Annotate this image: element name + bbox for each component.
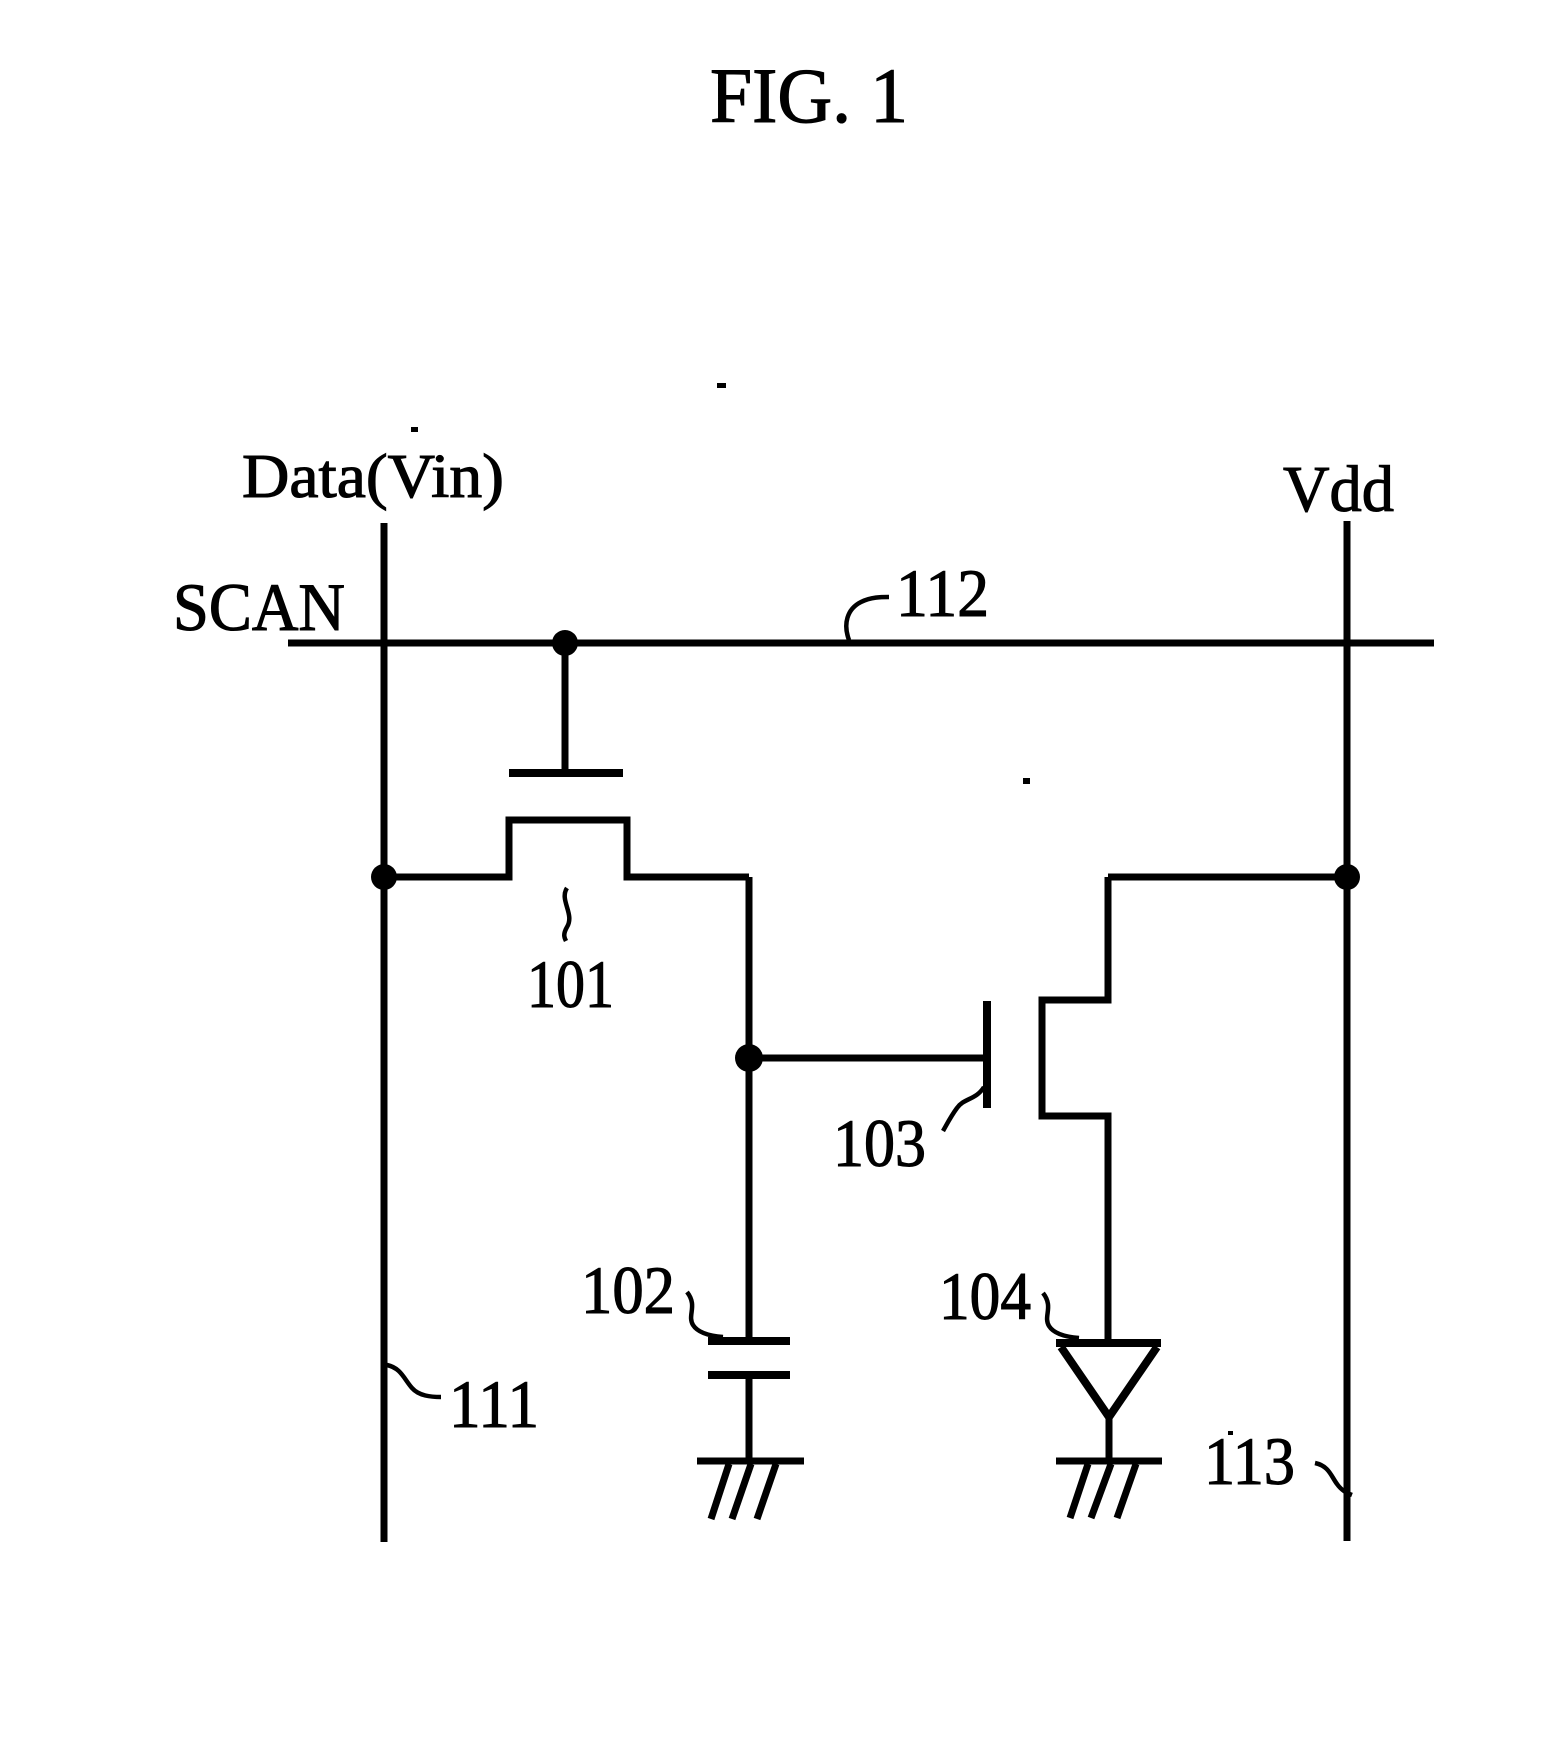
ground symbol below diode 104	[1056, 1461, 1162, 1518]
speck left of transistor 103	[1023, 778, 1030, 784]
OLED diode 104 (triangle)	[1056, 1343, 1161, 1417]
wire from 101 drain down to storage node	[746, 877, 753, 1058]
node storage node junction dot	[735, 1044, 763, 1072]
wire gate lead of transistor 101	[562, 643, 569, 770]
wire SCAN line 112 (horizontal)	[288, 640, 1434, 647]
node junction dot on data line at transistor 101 source	[371, 864, 397, 890]
ground symbol below capacitor 102	[697, 1461, 804, 1519]
capacitor 102 bottom plate	[708, 1371, 790, 1379]
wire storage node down to capacitor 102	[746, 1058, 753, 1338]
transistor 101 gate bar	[509, 769, 623, 777]
transistor 103 channel (vertical with hat facing left)	[1042, 877, 1108, 1343]
transistor 101 channel (source-drain with raised hat)	[384, 820, 749, 877]
svg-text:103: 103	[833, 1105, 926, 1181]
svg-text:112: 112	[896, 555, 989, 631]
svg-text:Vdd: Vdd	[1283, 453, 1394, 526]
svg-text:111: 111	[449, 1366, 539, 1442]
wire data line 111 (vertical)	[381, 523, 388, 1542]
capacitor 102 top plate	[708, 1337, 790, 1345]
node junction dot on Vdd line	[1334, 864, 1360, 890]
wire gate lead of transistor 103	[749, 1055, 984, 1062]
wire Vdd line 113 (vertical)	[1344, 521, 1351, 1541]
speck right of gate lead 101	[717, 383, 726, 388]
wire capacitor 102 bottom plate to ground	[746, 1375, 753, 1461]
svg-text:113: 113	[1204, 1423, 1295, 1499]
transistor 103 gate bar	[983, 1001, 991, 1108]
svg-text:102: 102	[581, 1252, 675, 1328]
svg-text:Data(Vin): Data(Vin)	[242, 443, 504, 511]
speck above Data(Vin)	[411, 427, 418, 432]
speck above label 113	[1228, 1431, 1233, 1435]
node junction dot on SCAN at gate of 101	[552, 630, 578, 656]
wire from 103 drain to Vdd line	[1108, 874, 1347, 881]
svg-text:SCAN: SCAN	[173, 569, 345, 645]
wire diode 104 anode to ground	[1106, 1415, 1113, 1461]
svg-text:104: 104	[939, 1258, 1031, 1334]
svg-text:FIG. 1: FIG. 1	[710, 52, 908, 139]
svg-text:101: 101	[527, 946, 614, 1022]
